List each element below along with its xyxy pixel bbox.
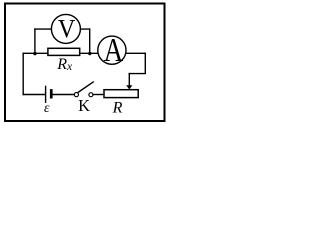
junction node left — [33, 52, 36, 55]
switch K: left contact circle — [74, 93, 78, 97]
wire: voltmeter loop right vertical — [89, 28, 91, 53]
wire: slider arrow shaft — [128, 73, 130, 86]
slider arrowhead — [126, 85, 132, 89]
wire: bottom wire battery-left segment — [23, 94, 46, 96]
svg-text:K: K — [78, 96, 90, 115]
wire: bottom wire battery-to-switch segment — [52, 94, 75, 96]
svg-text:A: A — [104, 31, 124, 69]
junction node right — [88, 52, 91, 55]
battery cell: long thin plate — [45, 86, 47, 103]
ammeter U2 circle — [98, 36, 126, 64]
rheostat R box — [104, 90, 138, 98]
voltmeter U1 circle — [51, 14, 80, 43]
resistor Rx box — [48, 48, 80, 55]
border frame — [5, 4, 165, 122]
wire: main horizontal wire (battery loop top) — [23, 52, 147, 54]
wire: voltmeter loop left vertical — [34, 28, 36, 53]
wire: voltmeter loop top horizontal — [34, 28, 90, 30]
svg-text:V: V — [58, 13, 76, 43]
wire: jog horizontal above rheostat — [129, 73, 146, 75]
wire: bottom wire switch-to-rheostat segment — [92, 94, 105, 96]
switch K: lever — [78, 82, 94, 93]
wire: left rail vertical — [22, 53, 24, 96]
wire: ammeter right drop vertical — [144, 53, 146, 74]
svg-text:R: R — [112, 99, 123, 116]
switch K: right contact circle — [89, 93, 93, 97]
battery cell: short thick plate — [50, 89, 53, 98]
svg-text:ε: ε — [44, 101, 50, 116]
